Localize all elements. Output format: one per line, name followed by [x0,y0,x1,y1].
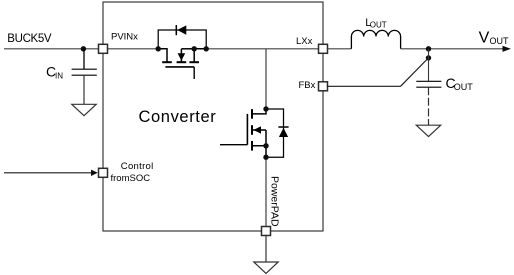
svg-text:LXx: LXx [296,36,313,47]
Q1 gate plate [165,66,194,68]
Q2 drain lead [252,109,266,114]
node Q1 diode anode/loop left [156,46,161,51]
Q1 body diode triangle [177,25,186,34]
node FB tap [426,55,431,60]
wire FBx pin horizontal [327,85,401,87]
svg-text:PowerPAD: PowerPAD [269,176,281,227]
svg-text:Converter: Converter [139,108,217,126]
Q2 channel bar source [251,141,253,151]
Q1 body arrow [178,53,186,61]
Q2 body arrow [253,126,261,134]
ground under COUT [416,125,440,136]
Q1 drain lead [158,49,167,62]
pin FBx [319,82,328,91]
Q1 body stub [180,49,182,62]
node Q1 source [192,46,197,51]
Q2 source lead [252,146,266,157]
wire VOUT junction down to COUT [428,49,430,82]
wire LX rail down to Q2 drain [265,49,267,110]
wire PVINx pin to Q1 drain [103,48,159,50]
Q2 gate lead [220,144,247,146]
capacitor COUT plates [416,80,441,82]
converter block outline U1 [103,2,323,231]
wire inductor to VOUT [401,48,504,50]
Q1 gate lead [193,67,195,79]
pin PowerPAD [262,227,271,236]
svg-text:Control: Control [121,161,154,172]
wire CIN drop [83,49,85,69]
ground under CIN [72,104,96,115]
arrowhead VOUT [503,46,511,52]
Q1 channel bar source [189,61,199,63]
transistor Q2 low-side FET : body diode loop [266,109,284,157]
svg-text:fromSOC: fromSOC [111,173,151,184]
Q1 source lead [194,49,206,62]
capacitor CIN plates [72,68,97,70]
Q2 channel bar body [251,125,253,135]
wire PowerPAD to ground [265,235,267,262]
inductor LOUT [351,30,400,48]
wire COUT to ground (dashed) [428,87,430,125]
node junction VOUT / COUT [426,46,431,51]
node Q1 loop right [204,46,209,51]
svg-text:PVINx: PVINx [111,31,138,42]
node Q2 drain/loop top [263,106,268,111]
Q2 gate plate [246,114,248,145]
svg-text:OUT: OUT [490,36,510,46]
Q1 channel bar drain [162,61,172,63]
svg-text:BUCK5V: BUCK5V [7,33,52,45]
svg-text:IN: IN [55,71,63,80]
wire Q2 source rail to PowerPAD pin [265,157,267,231]
pin Control [99,168,108,177]
svg-text:V: V [479,29,490,46]
wire BUCK5V input [4,48,103,50]
wire LXx pin to inductor [327,48,352,50]
transistor Q1 high-side FET : body diode loop [158,30,206,49]
node Q2 source [263,143,268,148]
Q2 body diode triangle [279,128,288,137]
arrowhead into Control pin [91,170,98,176]
Q2 body lead [252,129,266,131]
ground under PowerPAD [254,262,278,273]
Q2 body-to-source tie [265,130,267,146]
wire CIN to ground [83,75,85,104]
pin PVINx [99,44,108,53]
node Q2 loop bottom [263,155,268,160]
svg-text:OUT: OUT [454,82,474,92]
Q1 body-to-source tie [181,48,194,50]
wire control input [4,172,92,174]
pin LXx [319,44,328,53]
node junction BUCK5V / CIN [81,46,86,51]
wire FB diagonal to tap [401,58,429,86]
Q2 body diode cathode bar [278,126,288,128]
svg-text:OUT: OUT [370,21,387,30]
wire Q1 source to LXx pin [206,48,323,50]
Q2 channel bar drain [251,109,253,119]
Q1 body diode cathode bar [175,25,177,35]
Q1 channel bar body [177,61,187,63]
svg-text:FBx: FBx [299,80,316,91]
